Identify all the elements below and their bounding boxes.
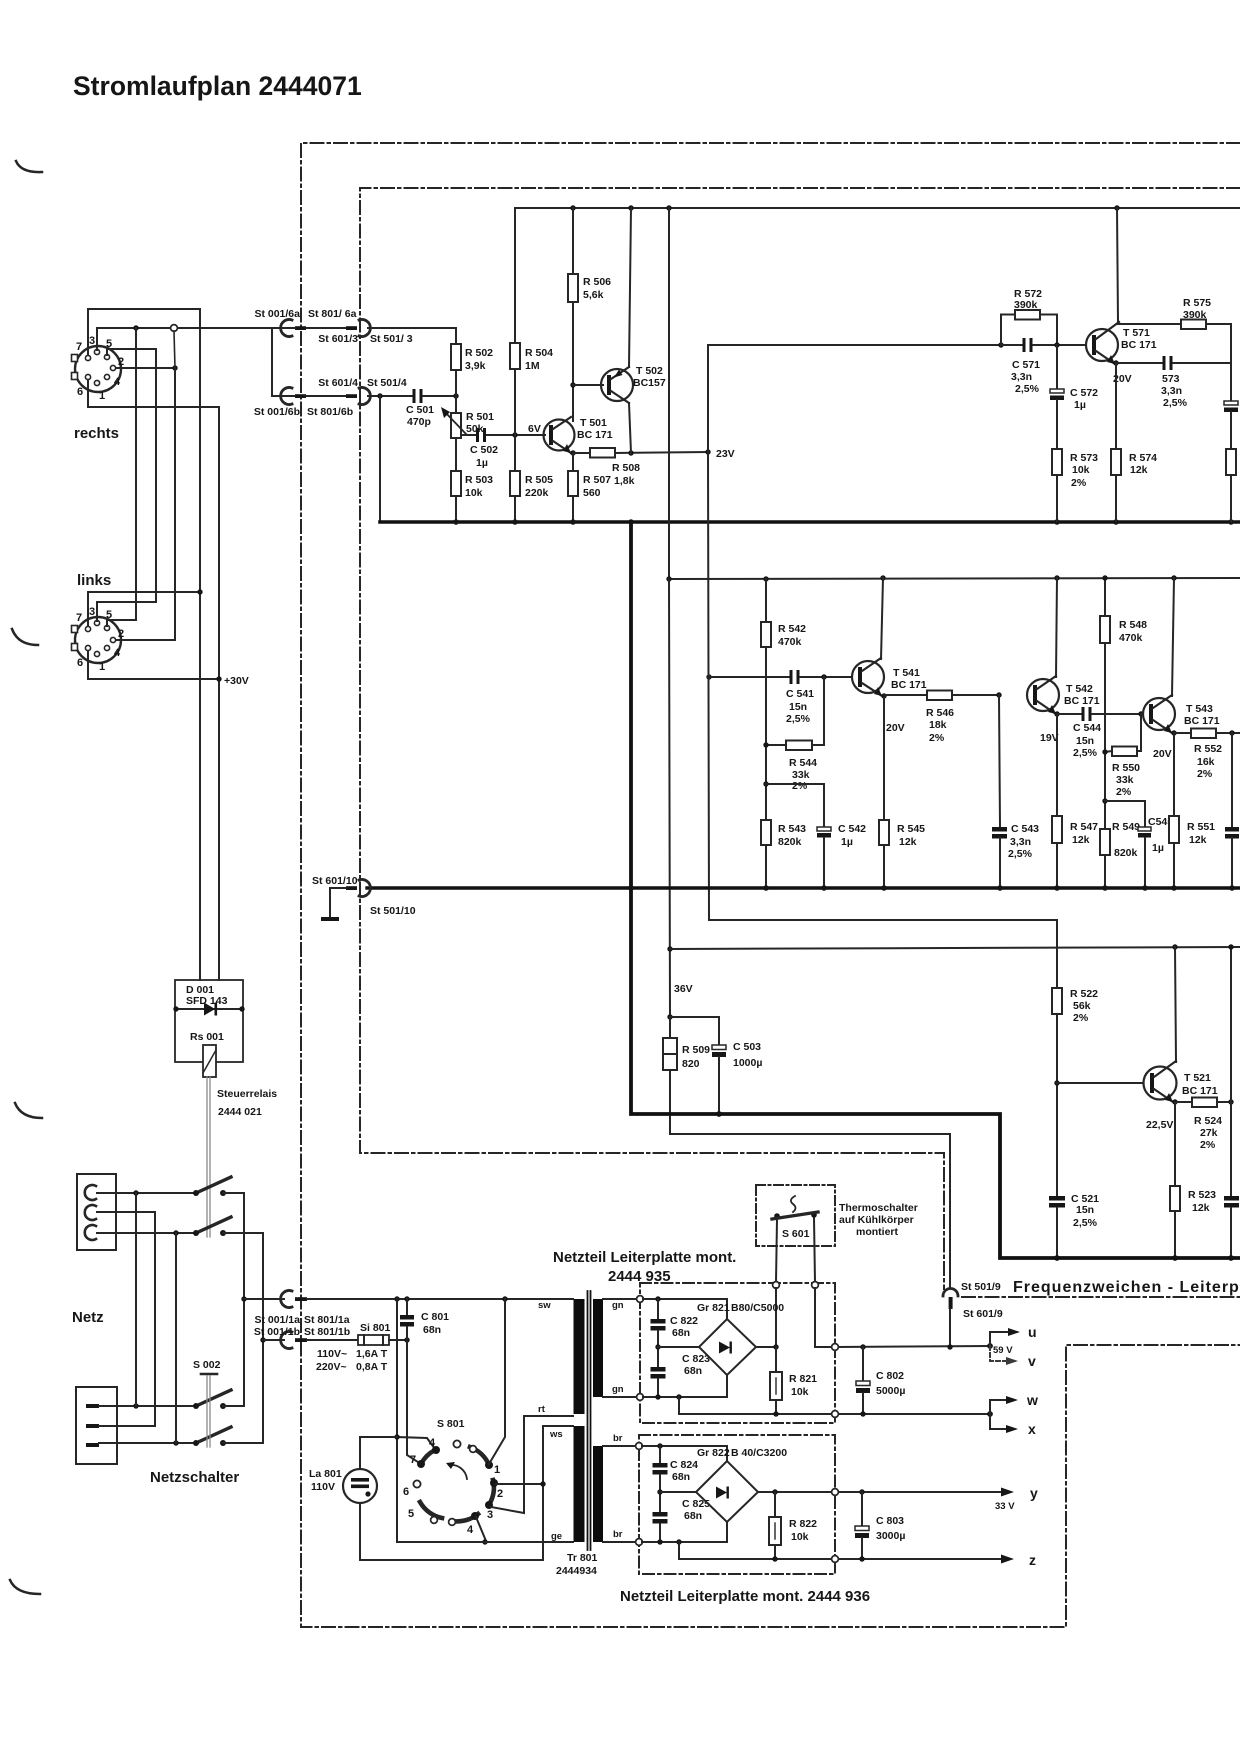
resistor R523: [1170, 1102, 1216, 1258]
svg-text:56k: 56k: [1073, 1000, 1091, 1012]
Netz connector lower housing: [76, 1387, 117, 1464]
links pin 6: [85, 645, 90, 650]
node junction drop z: [676, 1539, 681, 1544]
wire x397 row1a down to ge row: [396, 1299, 398, 1542]
S801 contact 4 bottom bridge: [452, 1514, 478, 1521]
capacitor C823: [651, 1353, 711, 1397]
wire R504 to R505: [514, 369, 516, 471]
wire prong2 upper to lower: [97, 1212, 155, 1426]
output z arrow: [1001, 1555, 1014, 1564]
wire ge row: [397, 1541, 573, 1543]
wire into board to R821 node: [775, 1288, 777, 1347]
Frequenzweichen board dash-dot border: [360, 188, 1240, 1289]
svg-text:St 001/6a: St 001/6a: [254, 308, 300, 320]
node junction: [239, 1006, 244, 1011]
svg-text:33 V: 33 V: [995, 1501, 1015, 1512]
chassis boundary dash-dot border: [301, 143, 1240, 1627]
Netz upper prong 3: [85, 1225, 96, 1240]
connector St001/6a pin bar: [295, 326, 306, 330]
svg-text:820k: 820k: [778, 836, 802, 848]
node junction rail x669: [666, 205, 671, 210]
svg-text:470k: 470k: [1119, 632, 1143, 644]
wire bridge right to R821 node: [756, 1346, 776, 1348]
node junction C802: [860, 1344, 865, 1349]
wire mid to bridge left: [658, 1346, 699, 1348]
output v arrow dashed: [990, 1346, 1010, 1361]
wire T501 base: [515, 434, 545, 436]
transistor T541: [852, 658, 927, 734]
stage3 supply wire y948: [670, 947, 1240, 949]
svg-text:R 542: R 542: [778, 623, 806, 635]
diode D001 wire: [175, 1008, 243, 1010]
node junction rail2 x766: [763, 576, 768, 581]
wire to C503: [670, 1017, 719, 1045]
svg-text:2,5%: 2,5%: [1163, 397, 1188, 409]
node junction C824/C825: [657, 1489, 662, 1494]
svg-text:St 601/10: St 601/10: [312, 875, 358, 887]
fuse ratings labels: [316, 1348, 388, 1373]
capacitor C574 electrolytic: [1224, 363, 1238, 449]
svg-text:2%: 2%: [1197, 768, 1213, 780]
svg-text:R 548: R 548: [1119, 619, 1147, 631]
svg-text:St 001/1a: St 001/1a: [254, 1314, 300, 1326]
node junction lamp: [394, 1434, 399, 1439]
svg-text:St 501/ 3: St 501/ 3: [370, 333, 413, 345]
node junction St601/9 drop: [947, 1344, 952, 1349]
svg-text:C 801: C 801: [421, 1311, 449, 1323]
board936 br input pin 2: [636, 1539, 643, 1546]
connector St001/6b socket: [281, 388, 292, 405]
wire pole2 to x263: [223, 1232, 263, 1234]
svg-text:R 545: R 545: [897, 823, 925, 835]
Netz connector upper housing: [77, 1174, 116, 1250]
fuse Si801: [358, 1322, 391, 1345]
wire prong1 to switch row1: [97, 1192, 196, 1194]
svg-text:br: br: [613, 1433, 623, 1444]
wire lamp node across to S801 contact 4 top: [397, 1437, 435, 1449]
connector St001/6b pin bar: [295, 394, 306, 398]
svg-text:La 801: La 801: [309, 1468, 342, 1480]
node junction x200 y592: [197, 589, 202, 594]
resistor R574: [1111, 363, 1157, 521]
svg-text:T 541: T 541: [893, 667, 920, 679]
wire x1105 branch to C545: [1105, 801, 1145, 827]
wire R503 to bus: [455, 496, 457, 521]
node junction C824 top: [657, 1443, 662, 1448]
resistor R548: [1100, 578, 1147, 829]
svg-text:2: 2: [497, 1488, 503, 1500]
svg-text:6: 6: [77, 657, 83, 669]
svg-text:T 521: T 521: [1184, 1072, 1211, 1084]
resistor R524: [1175, 1098, 1231, 1152]
page punch hole mark 4: [10, 1580, 40, 1594]
svg-text:2%: 2%: [1073, 1012, 1089, 1024]
svg-text:1: 1: [99, 661, 105, 673]
rechts pin 3: [94, 349, 99, 354]
wire supply x669 rail to stage2 rail: [668, 208, 670, 579]
board border pin: [832, 1411, 839, 1418]
svg-text:auf Kühlkörper: auf Kühlkörper: [839, 1214, 914, 1226]
resistor R551: [1169, 733, 1215, 888]
S801 bridge contact 7-4: [421, 1450, 435, 1464]
svg-text:3,3n: 3,3n: [1011, 371, 1032, 383]
capacitor C543 electrolytic: [992, 695, 1039, 888]
board border pin: [832, 1489, 839, 1496]
wire x766 to C542: [766, 784, 824, 827]
rechts pin 2: [110, 365, 115, 370]
links pin 2: [110, 637, 115, 642]
links pin 1: [94, 651, 99, 656]
capacitor C521 electrolytic: [1049, 1193, 1099, 1258]
node junction R821 top: [773, 1344, 778, 1349]
wire between connector halves y396: [272, 395, 295, 397]
resistor R505: [510, 471, 553, 499]
pole3 contacts: [193, 1403, 199, 1409]
svg-text:6V: 6V: [528, 423, 541, 435]
S801 contact 1 open circle: [470, 1446, 477, 1453]
resistor R504: [510, 343, 553, 372]
wire x136 down to links pin5: [107, 328, 136, 626]
resistor R509: [663, 1017, 710, 1134]
Netz lower prong 2: [86, 1424, 99, 1428]
Frequenzweichen board dash-dot border right of St501/9: [962, 1296, 1240, 1298]
node junction ge: [482, 1539, 487, 1544]
node junction x397: [394, 1296, 399, 1301]
svg-text:R 505: R 505: [525, 474, 553, 486]
resistor R503: [451, 471, 493, 499]
links pin 7: [85, 626, 90, 631]
wire fuse to C801 bottom node: [389, 1339, 407, 1341]
rechts pin 6: [85, 374, 90, 379]
svg-text:C 542: C 542: [838, 823, 866, 835]
svg-text:2,5%: 2,5%: [786, 713, 811, 725]
node junction: [173, 1006, 178, 1011]
svg-text:15n: 15n: [789, 701, 807, 713]
node junction x1105 y801: [1102, 798, 1107, 803]
svg-text:15n: 15n: [1076, 1204, 1094, 1216]
board border pin: [832, 1556, 839, 1563]
wire St501/4 to C501: [368, 395, 413, 397]
node junction R544 left: [763, 742, 768, 747]
wire rechts pin5 to y349: [107, 349, 156, 355]
wire R501 to R503: [455, 438, 457, 471]
S801 contact 4 bottom dot: [471, 1512, 479, 1520]
svg-text:ge: ge: [551, 1531, 562, 1542]
svg-text:33k: 33k: [1116, 774, 1134, 786]
wire bridge bottom to row2: [726, 1522, 728, 1542]
page punch hole mark 1: [16, 161, 42, 172]
transistor T521: [1144, 1061, 1218, 1131]
node junction S801-1: [502, 1296, 507, 1301]
svg-text:St 501/9: St 501/9: [961, 1281, 1001, 1293]
svg-text:2%: 2%: [792, 780, 808, 792]
transistor T502 PNP: [601, 365, 666, 403]
svg-text:2,5%: 2,5%: [1073, 747, 1098, 759]
capacitor C522 electrolytic: [1224, 1196, 1239, 1258]
output row u wire: [836, 1346, 990, 1347]
svg-text:R 508: R 508: [612, 462, 640, 474]
wire rechts pin7 to top rail y309: [88, 309, 200, 355]
svg-text:T 571: T 571: [1123, 327, 1150, 339]
transformer core: [587, 1291, 589, 1550]
node junction emitter T501: [570, 450, 575, 455]
links pin 4: [104, 645, 109, 650]
svg-text:SFD 143: SFD 143: [186, 995, 228, 1007]
node junction x824 y677: [821, 674, 826, 679]
transistor T543: [1143, 695, 1220, 760]
svg-text:Steuerrelais: Steuerrelais: [217, 1088, 277, 1100]
transformer Tr801 primary winding: [574, 1299, 585, 1414]
wire pole4 to x263: [223, 1442, 263, 1444]
node junction x456 y396: [453, 393, 458, 398]
S801 contact 6 open: [413, 1480, 420, 1487]
output u arrow: [990, 1324, 1037, 1346]
node junction C822/C823: [655, 1344, 660, 1349]
svg-text:T 501: T 501: [580, 417, 607, 429]
svg-text:820: 820: [682, 1058, 700, 1070]
svg-text:gn: gn: [612, 1300, 624, 1311]
wire to St001/1a: [244, 1298, 284, 1300]
node junction T521 collector on y947: [1172, 944, 1177, 949]
svg-text:15n: 15n: [1076, 735, 1094, 747]
svg-text:BC157: BC157: [633, 377, 666, 389]
svg-text:+30V: +30V: [224, 675, 249, 687]
S801 contact 2 dot: [490, 1479, 498, 1487]
svg-text:23V: 23V: [716, 448, 735, 460]
svg-text:4: 4: [467, 1524, 474, 1536]
Netzteil 935 header: [553, 1249, 736, 1285]
svg-text:R 523: R 523: [1188, 1189, 1216, 1201]
node junction R822 top: [772, 1489, 777, 1494]
S801 bottom open contact: [449, 1519, 456, 1526]
svg-text:3: 3: [89, 335, 95, 347]
svg-text:w: w: [1026, 1392, 1038, 1408]
svg-text:22,5V: 22,5V: [1146, 1119, 1173, 1131]
capacitor C503 electrolytic: [712, 1041, 762, 1114]
switch S002 pole3 blade: [196, 1390, 231, 1406]
svg-text:59 V: 59 V: [993, 1345, 1013, 1356]
svg-text:470p: 470p: [407, 416, 431, 428]
bridge rectifier Gr822: [696, 1447, 787, 1522]
resistor R576: [1226, 449, 1236, 521]
svg-text:R 507: R 507: [583, 474, 611, 486]
svg-text:2%: 2%: [1200, 1139, 1216, 1151]
svg-text:573: 573: [1162, 373, 1180, 385]
S801 contact 1 dot: [485, 1461, 493, 1469]
node 23V junction: [705, 449, 710, 454]
svg-text:10k: 10k: [791, 1386, 809, 1398]
switch S002 pole4 blade: [196, 1427, 231, 1443]
svg-text:2444 935: 2444 935: [608, 1268, 671, 1285]
wire R575 right down to emitter line: [1230, 324, 1232, 363]
node junction x1231 y947: [1228, 944, 1233, 949]
svg-text:C 544: C 544: [1073, 722, 1101, 734]
node junction: [172, 365, 177, 370]
node junction T502 base tap: [570, 382, 575, 387]
node junction drop: [676, 1394, 681, 1399]
svg-text:br: br: [613, 1529, 623, 1540]
wire C801 node down to S801 contact 7: [407, 1340, 421, 1464]
svg-text:R 524: R 524: [1194, 1115, 1222, 1127]
svg-text:1µ: 1µ: [841, 836, 853, 848]
svg-text:5,6k: 5,6k: [583, 289, 604, 301]
wire mid to bridge left: [660, 1491, 696, 1493]
resistor R552: [1174, 729, 1240, 781]
output y arrow: [1001, 1488, 1014, 1497]
connector St501/3 pin bar: [346, 326, 357, 330]
wire S601 right to board: [814, 1218, 815, 1282]
svg-text:10k: 10k: [791, 1531, 809, 1543]
node junction R508/T502 collector: [628, 450, 633, 455]
page punch hole mark 2: [12, 629, 38, 645]
supply rail y208: [515, 207, 1240, 209]
wire emitter to R508: [573, 452, 590, 454]
node junction x515 y435: [512, 432, 517, 437]
node junction x244 row1a: [241, 1296, 246, 1301]
connector St501/10 pin bar: [346, 886, 357, 890]
svg-text:R 543: R 543: [778, 823, 806, 835]
board pin open circle: [773, 1282, 780, 1289]
node junction x1057 y345: [1054, 342, 1059, 347]
wire links pin7 to y592: [88, 592, 200, 626]
svg-text:C 802: C 802: [876, 1370, 904, 1382]
wire x200 down from y309: [199, 309, 201, 980]
wire rail to R506: [572, 208, 574, 274]
svg-text:2%: 2%: [1071, 477, 1087, 489]
wire T543 collector: [1172, 578, 1174, 696]
svg-text:20V: 20V: [886, 722, 905, 734]
connector labels row1: [254, 308, 412, 345]
svg-text:7: 7: [410, 1454, 416, 1466]
connector St001/1b socket: [281, 1332, 292, 1349]
Netz upper prong 2: [85, 1205, 96, 1220]
svg-text:C 503: C 503: [733, 1041, 761, 1053]
resistor R550: [1105, 714, 1141, 798]
svg-text:S 601: S 601: [782, 1228, 810, 1240]
svg-text:68n: 68n: [672, 1327, 690, 1339]
switch S002 pole2 blade: [196, 1217, 231, 1233]
wire T501 emitter to node: [571, 452, 573, 454]
wire T521 base: [1057, 1082, 1143, 1084]
svg-text:C 502: C 502: [470, 444, 498, 456]
output row y wire: [758, 1491, 1005, 1493]
svg-text:R 504: R 504: [525, 347, 553, 359]
rechts pin 1: [94, 380, 99, 385]
svg-text:2,5%: 2,5%: [1073, 1217, 1098, 1229]
S801 contact 2-3 bridge: [490, 1480, 494, 1503]
potentiometer R501: [441, 407, 494, 438]
svg-text:0,8A T: 0,8A T: [356, 1361, 388, 1373]
wire R502 to R501: [455, 370, 457, 413]
board935 gn input pin 2: [637, 1394, 644, 1401]
node junction: [173, 1230, 178, 1235]
svg-text:montiert: montiert: [856, 1226, 899, 1238]
svg-text:470k: 470k: [778, 636, 802, 648]
svg-text:Rs 001: Rs 001: [190, 1031, 224, 1043]
svg-text:12k: 12k: [1192, 1202, 1210, 1214]
pole4 contacts: [193, 1440, 199, 1446]
svg-text:1: 1: [494, 1464, 500, 1476]
resistor R821: [770, 1347, 817, 1413]
node junction y949: [667, 946, 672, 951]
ground symbol: [321, 917, 339, 921]
svg-text:u: u: [1028, 1324, 1037, 1340]
wire R508 to 23V node: [615, 452, 708, 453]
node junction T571 emitter: [1113, 360, 1118, 365]
wire x1231 from y947 down: [1230, 947, 1232, 1196]
svg-text:St 801/1b: St 801/1b: [304, 1326, 350, 1338]
resistor R522: [1052, 988, 1098, 1196]
svg-text:rechts: rechts: [74, 425, 119, 442]
capacitor C572 electrolytic: [1050, 345, 1098, 449]
node junction T541 emitter: [881, 693, 886, 698]
wire T541 collector: [881, 578, 883, 659]
node junction T541 collector: [880, 575, 885, 580]
board936 bottom z wire: [679, 1542, 1005, 1559]
node junction T521 base: [1054, 1080, 1059, 1085]
svg-text:110V: 110V: [311, 1481, 335, 1493]
wire gn row2 inside board: [643, 1396, 727, 1398]
links pin 3: [94, 620, 99, 625]
node junction on y328: [133, 325, 138, 330]
node junction rail x1117: [1114, 205, 1119, 210]
wire lamp top to node: [360, 1437, 397, 1469]
transistor T571: [1086, 322, 1157, 385]
capacitor C542 electrolytic: [817, 823, 866, 888]
wire x176 link: [175, 1233, 177, 1443]
svg-text:rt: rt: [538, 1404, 546, 1415]
svg-text:B80/C5000: B80/C5000: [731, 1302, 784, 1314]
svg-text:C 824: C 824: [670, 1459, 698, 1471]
wire gn row1 inside board: [643, 1299, 727, 1319]
svg-text:Frequenzweichen - Leiterplatte: Frequenzweichen - Leiterplatte m: [1013, 1279, 1240, 1296]
connector labels row2: [254, 377, 407, 418]
resistor R547: [1052, 714, 1098, 888]
svg-text:7: 7: [76, 341, 82, 353]
svg-text:1,6A T: 1,6A T: [356, 1348, 388, 1360]
wire T502 base: [573, 384, 603, 386]
open circle node on y328: [171, 325, 178, 332]
resistor R502: [451, 344, 493, 372]
wire T571 collector to rail: [1117, 208, 1118, 323]
wire pole1 to x244: [223, 1192, 244, 1194]
capacitor C544: [1057, 707, 1143, 759]
gn secondary wire 2: [603, 1396, 640, 1398]
svg-text:R 550: R 550: [1112, 762, 1140, 774]
node junction C802 bottom: [860, 1411, 865, 1416]
wire open circle to pin2 vertical: [174, 331, 175, 368]
wire R506 to T501 collector: [572, 302, 574, 421]
wire lamp bottom to ws column: [360, 1426, 543, 1560]
wire into board down to output row: [815, 1288, 832, 1347]
br secondary wire 1: [603, 1445, 639, 1447]
wire T502 collector down: [629, 403, 631, 453]
wire row 1a to transformer: [307, 1298, 573, 1300]
wire contact1 to row 1a: [489, 1299, 505, 1464]
node junction C803 top: [859, 1489, 864, 1494]
relay coil Rs001: [190, 1031, 224, 1077]
svg-text:7: 7: [76, 612, 82, 624]
svg-text:BC 171: BC 171: [1184, 715, 1220, 727]
svg-text:3: 3: [487, 1509, 493, 1521]
wire x156 down to links pin3: [97, 349, 156, 621]
node junction T543 base: [1138, 711, 1143, 716]
svg-text:R 509: R 509: [682, 1044, 710, 1056]
rechts pin 7: [85, 355, 90, 360]
svg-text:12k: 12k: [899, 836, 917, 848]
svg-text:3,3n: 3,3n: [1161, 385, 1182, 397]
svg-text:Netz: Netz: [72, 1309, 104, 1326]
